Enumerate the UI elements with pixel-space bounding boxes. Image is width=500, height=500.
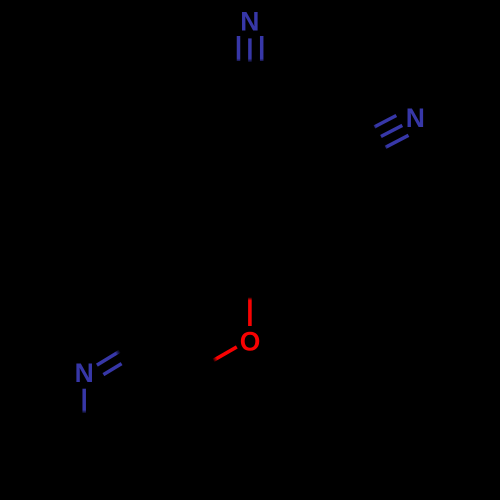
svg-text:N: N (240, 6, 259, 36)
svg-text:N: N (406, 103, 425, 133)
svg-text:N: N (75, 358, 94, 388)
svg-text:O: O (240, 326, 261, 356)
